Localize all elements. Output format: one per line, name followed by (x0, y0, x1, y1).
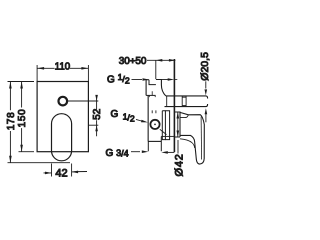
lever neck joint line (180, 115, 188, 118)
spindle bottom edge (165, 104, 208, 107)
G 1/2 mid leader (136, 119, 142, 121)
svg-text:52: 52 (92, 108, 103, 120)
svg-text:42: 42 (55, 168, 67, 180)
dim 178 left (9, 82, 11, 163)
port bore tick (149, 91, 155, 97)
body right face rects (162, 111, 165, 140)
plate front view (escutcheon rectangle) (37, 82, 88, 152)
dim 30÷50 (147, 60, 175, 79)
Ø20,5 upper arrow (205, 81, 207, 88)
wall line (173, 59, 175, 152)
svg-text:178: 178 (6, 112, 17, 131)
valve body top cap (156, 80, 166, 96)
body bottom edge (148, 140, 161, 142)
G 1/2 top leader (132, 79, 143, 81)
Ø20,5 lower arrow (205, 114, 207, 122)
hole circle on plate (59, 97, 68, 106)
body left edge lower (147, 95, 149, 141)
body ledge (146, 94, 156, 96)
spindle top edge (166, 96, 208, 99)
Ø42 leader down to text (177, 140, 179, 154)
spindle neck (182, 96, 186, 107)
svg-text:G 3/4: G 3/4 (106, 148, 129, 159)
valve body: top port mouth and step (146, 80, 156, 85)
ledge line to wall at y136.4 (161, 135, 174, 137)
svg-text:110: 110 (55, 61, 71, 72)
arrow from cap to wall at y79.5 (161, 79, 168, 81)
centerline from circle to right (68, 100, 98, 102)
dim 52 right side (89, 95, 99, 136)
rosette side (Ø42) (174, 112, 180, 137)
handle skirt lower curve (180, 139, 195, 148)
side port circle G 1/2 (150, 120, 159, 129)
ext line capsule bottom extended left (178) (8, 162, 71, 164)
handle capsule front view (52, 114, 72, 161)
spindle left cap line (166, 96, 168, 107)
lever handle side view (180, 112, 204, 164)
svg-text:Ø42: Ø42 (173, 153, 185, 176)
dim 42 bottom of capsule (44, 164, 88, 177)
right outside arrow toward stub (168, 151, 175, 153)
dim Ø42 arrows inside rosette (177, 112, 179, 137)
svg-text:30÷50: 30÷50 (119, 56, 147, 67)
dim 150 left inner (21, 82, 23, 152)
body left outer edge upper (145, 80, 147, 96)
ext line plate bottom extended left (150) (19, 151, 35, 153)
svg-text:Ø20,5: Ø20,5 (199, 52, 211, 81)
lever inner line (200, 117, 203, 160)
svg-text:150: 150 (17, 108, 28, 127)
G 3/4 leader with outside arrow (131, 151, 140, 153)
ext line plate top extended left (8, 81, 35, 83)
G 3/4 stub below body (148, 137, 161, 152)
marks 11 on body (152, 110, 156, 113)
dim 110 top (37, 65, 88, 81)
